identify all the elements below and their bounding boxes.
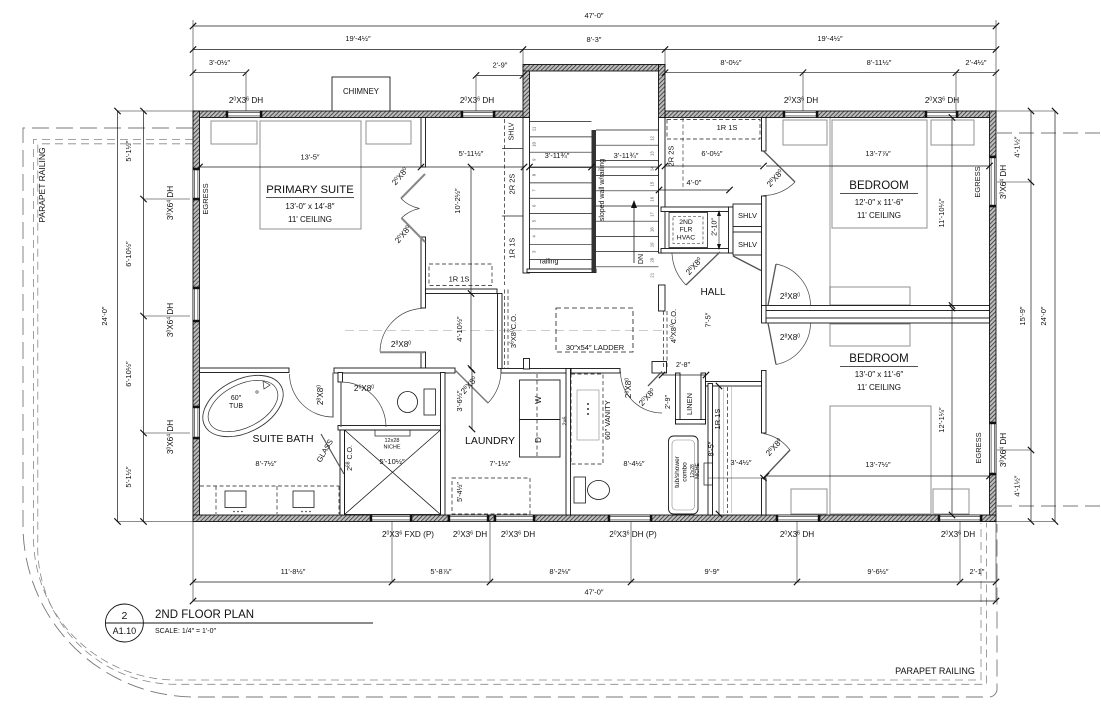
- bedrooms double wall lower east: [766, 318, 990, 323]
- svg-text:28X80: 28X80: [780, 333, 800, 342]
- washer box: [520, 380, 561, 420]
- title circle: [105, 604, 143, 642]
- svg-text:PARAPET RAILING: PARAPET RAILING: [895, 666, 975, 676]
- wc toilet: [424, 389, 436, 415]
- laundry stack dashed: [536, 374, 538, 457]
- exterior bottom wall: [193, 515, 996, 522]
- bottom window 2-0x3-6 DH b: [494, 515, 535, 522]
- stair west wall: [523, 118, 530, 274]
- laundry door: [455, 370, 488, 403]
- svg-text:11' CEILING: 11' CEILING: [857, 211, 901, 220]
- svg-text:FLR: FLR: [680, 227, 693, 234]
- svg-text:28X80: 28X80: [316, 385, 325, 405]
- dim 24-0 left: [117, 111, 119, 522]
- bottom window 2-0x3-6 DH bedroom2-left: [776, 515, 820, 522]
- stair bump right wall: [659, 65, 666, 118]
- svg-text:3'-11¾″: 3'-11¾″: [545, 151, 570, 160]
- svg-text:5'-1½″: 5'-1½″: [124, 466, 133, 488]
- wc door arc: [341, 382, 386, 427]
- svg-text:DN: DN: [638, 254, 645, 264]
- svg-text:5'-11½″: 5'-11½″: [459, 149, 484, 158]
- bedroom2 entry door: [764, 450, 791, 478]
- stair east wall lower: [659, 285, 666, 311]
- suite closet west wall lower: [421, 237, 426, 308]
- svg-text:8'-4½″: 8'-4½″: [623, 459, 645, 468]
- chimney box: [332, 77, 390, 111]
- closet north wall bath: [706, 382, 762, 387]
- svg-text:8'-5″: 8'-5″: [707, 441, 716, 456]
- svg-text:1R 1S: 1R 1S: [713, 409, 722, 430]
- svg-text:LAUNDRY: LAUNDRY: [465, 435, 515, 447]
- svg-text:sloped wall w/railing: sloped wall w/railing: [599, 159, 606, 221]
- stair east wall: [659, 118, 666, 254]
- hvac closet south wall: [661, 249, 733, 254]
- svg-text:30″x54″ LADDER: 30″x54″ LADDER: [566, 343, 625, 352]
- stair treads right flight: [596, 129, 659, 131]
- bedroom1 nightstand left: [783, 120, 827, 145]
- dim 2-9 bump: [476, 74, 523, 76]
- svg-text:13'-7⅞″: 13'-7⅞″: [865, 149, 891, 158]
- bedroom1 top closet dashed: [667, 120, 760, 140]
- svg-text:26X80: 26X80: [624, 378, 633, 398]
- svg-text:SHLV: SHLV: [738, 211, 757, 220]
- parapet dashed line right mid: [997, 505, 1101, 507]
- dim right segments: [1030, 111, 1032, 522]
- svg-text:26X80: 26X80: [354, 384, 374, 393]
- hall centerline dashed: [345, 330, 666, 332]
- svg-text:13′-0″ x 11′-6″: 13′-0″ x 11′-6″: [855, 370, 904, 379]
- primary suite nightstand right: [366, 121, 411, 144]
- tub faucet: [263, 381, 270, 389]
- window 2-0x3-6 DH top-right-2: [925, 111, 958, 118]
- stair wall stub laundry: [524, 359, 530, 370]
- parapet railing outer dashed line: [23, 128, 997, 697]
- svg-text:combo: combo: [682, 462, 689, 482]
- svg-text:1R 1S: 1R 1S: [508, 238, 517, 259]
- svg-text:SHLV: SHLV: [738, 240, 757, 249]
- svg-text:28X80: 28X80: [780, 292, 800, 301]
- stair bump top wall: [523, 65, 665, 72]
- svg-text:8'-3″: 8'-3″: [587, 35, 602, 44]
- wc room north wall: [334, 368, 455, 373]
- wc room south wall: [338, 426, 445, 431]
- linen west wall: [676, 373, 681, 424]
- svg-text:11: 11: [532, 126, 537, 131]
- svg-text:SCALE: 1/4″ = 1′-0″: SCALE: 1/4″ = 1′-0″: [155, 628, 216, 635]
- dim 24-0 right: [1054, 111, 1056, 522]
- svg-text:24'-0″: 24'-0″: [100, 306, 109, 325]
- primary suite nightstand left: [211, 121, 257, 144]
- dim bottom segments: [193, 581, 996, 583]
- bedroom1 hall door: [768, 264, 776, 306]
- svg-text:1R 1S: 1R 1S: [449, 275, 470, 284]
- svg-text:5'-10½″: 5'-10½″: [379, 457, 405, 466]
- svg-text:18: 18: [650, 227, 655, 232]
- svg-text:1R 1S: 1R 1S: [717, 123, 738, 132]
- bedroom1 nightstand right: [931, 120, 974, 145]
- svg-text:2R 2S: 2R 2S: [508, 174, 517, 195]
- closet strip divider shelf line 1: [502, 148, 523, 150]
- parapet railing inner dashed pair: [34, 140, 982, 681]
- dim row3 right: [665, 72, 996, 74]
- dim 12-1 bedroom2 vert: [951, 308, 953, 515]
- stair bump left wall: [523, 65, 530, 118]
- svg-text:HVAC: HVAC: [677, 235, 695, 242]
- shelf closet upper box: [733, 204, 762, 227]
- bedroom1 west wall upper: [762, 118, 767, 152]
- right wall egress window 3-0x6-4 DH lower: [990, 422, 997, 475]
- dashed line right of stairs: [682, 118, 684, 190]
- bottom window 2-0x3-6 DH a: [448, 515, 489, 522]
- svg-text:20X36 DH (P): 20X36 DH (P): [609, 530, 657, 539]
- svg-text:7'-5″: 7'-5″: [704, 312, 713, 327]
- dim 3-11 stair left: [530, 166, 592, 168]
- bath entry door: [648, 372, 662, 387]
- bedroom2 nightstand left: [791, 489, 827, 514]
- svg-text:8'-0½″: 8'-0½″: [720, 58, 742, 67]
- hvac closet north wall: [661, 207, 733, 212]
- svg-text:12′-0″ x 11′-6″: 12′-0″ x 11′-6″: [855, 198, 904, 207]
- svg-text:11'-10¼″: 11'-10¼″: [937, 198, 946, 227]
- svg-text:2ND: 2ND: [679, 219, 693, 226]
- dim 13-7 bedroom1: [766, 165, 990, 167]
- svg-text:BEDROOM: BEDROOM: [849, 353, 908, 365]
- suite closet double doors 2-0x8-0: [401, 174, 425, 199]
- hall stair door: [686, 252, 720, 285]
- svg-text:2'-10″: 2'-10″: [712, 218, 719, 236]
- vanity dashed: [571, 374, 603, 464]
- closet area south wall: [426, 289, 498, 294]
- svg-text:19'-4½″: 19'-4½″: [817, 34, 843, 43]
- svg-text:5'-1½″: 5'-1½″: [124, 140, 133, 162]
- dim 47-0 bottom: [193, 600, 996, 602]
- svg-text:7'-1½″: 7'-1½″: [489, 459, 511, 468]
- shelf closet door leaf: [733, 256, 761, 271]
- svg-text:2x6: 2x6: [563, 417, 569, 426]
- svg-text:8'-7½″: 8'-7½″: [255, 459, 277, 468]
- glass partition: [321, 434, 344, 474]
- bedroom1 entry door: [764, 151, 796, 182]
- bedroom2 west wall upper: [762, 371, 767, 434]
- suite bath counter dashed: [200, 485, 339, 487]
- svg-text:3'-4½″: 3'-4½″: [730, 458, 752, 467]
- svg-text:4'-0″: 4'-0″: [687, 178, 702, 187]
- suite bath north wall: [200, 368, 290, 373]
- svg-text:6'-0½″: 6'-0½″: [701, 149, 723, 158]
- svg-text:20X36 FXD (P): 20X36 FXD (P): [382, 530, 434, 539]
- bath toilet: [574, 477, 586, 503]
- svg-text:4'-1½″: 4'-1½″: [1013, 136, 1022, 158]
- dryer box: [520, 420, 561, 458]
- svg-text:60″: 60″: [231, 395, 242, 402]
- linen east wall: [701, 373, 706, 424]
- wc room west wall stub: [338, 373, 343, 383]
- dim 13-5 suite: [200, 166, 422, 168]
- svg-text:3'-6½″: 3'-6½″: [455, 390, 464, 412]
- svg-text:4'-1½″: 4'-1½″: [1013, 475, 1022, 497]
- svg-text:12'-1¼″: 12'-1¼″: [937, 407, 946, 433]
- suite west wall below door: [421, 352, 426, 371]
- bath niche box: [704, 463, 713, 485]
- bedroom1 ext line: [829, 118, 831, 306]
- svg-text:20: 20: [650, 257, 655, 262]
- suite bath tub: [193, 363, 294, 449]
- svg-text:15'-9″: 15'-9″: [1018, 306, 1027, 325]
- svg-text:16: 16: [650, 196, 655, 201]
- svg-text:19'-4½″: 19'-4½″: [345, 34, 371, 43]
- bottom window 2-0x3-6 FXD (P): [370, 515, 412, 522]
- svg-text:47'-0″: 47'-0″: [584, 11, 603, 20]
- suite bath door: [332, 373, 334, 418]
- svg-text:8'-2⅛″: 8'-2⅛″: [549, 567, 571, 576]
- svg-text:13: 13: [650, 151, 655, 156]
- svg-text:railing: railing: [540, 259, 559, 266]
- svg-text:6'-10½″: 6'-10½″: [124, 241, 133, 267]
- svg-text:13′-0″ x 14′-8″: 13′-0″ x 14′-8″: [285, 202, 334, 211]
- svg-text:12: 12: [650, 136, 655, 141]
- bedroom1 west wall lower: [762, 196, 767, 308]
- svg-text:TUB: TUB: [229, 403, 243, 410]
- window 2-0x3-6 DH top-left: [226, 111, 262, 118]
- svg-text:12x28: 12x28: [385, 438, 400, 444]
- shelf closet lower box: [733, 232, 762, 255]
- svg-text:19: 19: [650, 242, 655, 247]
- svg-text:tub/shower: tub/shower: [674, 455, 681, 488]
- svg-text:5'-4½″: 5'-4½″: [456, 482, 464, 502]
- svg-text:2: 2: [121, 610, 127, 622]
- sink left: [225, 491, 246, 508]
- door ext line: [708, 477, 763, 479]
- svg-text:SHLV: SHLV: [509, 122, 516, 140]
- dim 3-0 top left: [193, 72, 246, 74]
- svg-text:D: D: [534, 437, 543, 443]
- svg-text:10'-2½″: 10'-2½″: [453, 188, 462, 214]
- window 2-0x3-6 DH top-right-1: [783, 111, 818, 118]
- svg-text:W: W: [534, 396, 543, 404]
- svg-text:2ND FLOOR PLAN: 2ND FLOOR PLAN: [155, 609, 254, 621]
- svg-text:13'-5″: 13'-5″: [300, 153, 319, 162]
- svg-text:47'-0″: 47'-0″: [584, 588, 603, 597]
- window 2-0x3-6 DH top-center-left: [461, 111, 495, 118]
- svg-text:8'-11½″: 8'-11½″: [867, 58, 892, 67]
- svg-text:11' CEILING: 11' CEILING: [288, 215, 332, 224]
- laundry east wall: [566, 369, 571, 516]
- bath closet rod dashed: [727, 387, 729, 513]
- exterior top wall right segment: [665, 111, 996, 118]
- bedroom2 nightstand right: [933, 489, 969, 514]
- sink right: [293, 491, 314, 508]
- right wall egress window 3-0x6-4 DH upper: [990, 156, 997, 207]
- parapet dashed line right top: [997, 132, 1101, 134]
- bottom window 2-0x3-6 DH bedroom2-right: [938, 515, 982, 522]
- left wall window 3-0x6-4 DH lower: [193, 406, 200, 439]
- svg-text:13'-7½″: 13'-7½″: [865, 460, 891, 469]
- laundry north wall east seg: [501, 369, 571, 374]
- svg-text:NICHE: NICHE: [695, 463, 701, 479]
- wc room width dim: [471, 370, 473, 429]
- bedroom2 bed: [830, 406, 931, 514]
- vanity sink: [577, 390, 599, 440]
- hvac closet east wall: [729, 207, 734, 253]
- svg-text:EGRESS: EGRESS: [973, 166, 982, 197]
- stair DN arrow: [633, 205, 635, 263]
- svg-text:17: 17: [650, 212, 655, 217]
- svg-text:24'-0″: 24'-0″: [1039, 306, 1048, 325]
- dim 13-7 bedroom2: [766, 475, 990, 477]
- closet strip dashed front: [504, 119, 506, 285]
- title underline: [105, 622, 373, 624]
- stairwell bottom rail wall: [527, 269, 596, 273]
- svg-text:CHIMNEY: CHIMNEY: [343, 87, 380, 96]
- svg-text:11' CEILING: 11' CEILING: [857, 383, 901, 392]
- bottom window 2-0x3-6 DH (P): [608, 515, 652, 522]
- svg-text:11'-8½″: 11'-8½″: [281, 567, 306, 576]
- linen south wall: [676, 420, 706, 425]
- svg-text:2'-1″: 2'-1″: [970, 567, 985, 576]
- dim row2 top: [193, 49, 996, 51]
- svg-text:2'-4½″: 2'-4½″: [965, 58, 987, 67]
- exterior top wall left segment: [193, 111, 523, 118]
- svg-text:PARAPET RAILING: PARAPET RAILING: [37, 147, 47, 222]
- dim 5-11 closet: [421, 166, 524, 168]
- svg-text:3'-11¾″: 3'-11¾″: [614, 151, 639, 160]
- svg-text:LINEN: LINEN: [685, 393, 694, 415]
- svg-text:2'-8″: 2'-8″: [676, 362, 690, 369]
- svg-text:BEDROOM: BEDROOM: [849, 180, 908, 192]
- dim 6-0 hall top: [665, 165, 762, 167]
- svg-text:NICHE: NICHE: [383, 445, 400, 451]
- suite closet 1R1S dashed box: [429, 264, 492, 286]
- bedroom2 west wall lower: [762, 478, 767, 515]
- cased opening 4-0x8-0 dashed: [663, 311, 665, 369]
- dim 47-0 top: [193, 25, 996, 27]
- svg-text:21: 21: [650, 272, 655, 277]
- svg-text:2'-9″: 2'-9″: [665, 395, 672, 409]
- bedroom2 dresser upper: [830, 324, 910, 346]
- svg-text:60″ VANITY: 60″ VANITY: [603, 400, 612, 440]
- suite closet west wall upper: [421, 118, 426, 168]
- exterior left wall: [193, 111, 200, 522]
- left wall window 3-0x6-4 DH middle: [193, 287, 200, 322]
- dim 10-2 closet vert: [470, 167, 472, 294]
- primary suite bed: [260, 121, 361, 229]
- svg-text:PRIMARY SUITE: PRIMARY SUITE: [266, 184, 354, 196]
- bath closet west wall: [708, 384, 713, 516]
- svg-text:5'-8⅞″: 5'-8⅞″: [430, 567, 452, 576]
- svg-text:15: 15: [650, 181, 655, 186]
- bath north wall segment: [571, 369, 620, 374]
- hvac unit box: [669, 213, 708, 248]
- svg-text:3'-0½″: 3'-0½″: [209, 58, 231, 67]
- cased opening 3-6x8-0 dashed: [504, 290, 506, 369]
- svg-text:28X80: 28X80: [391, 340, 411, 349]
- svg-text:2'-9″: 2'-9″: [493, 61, 508, 70]
- hvac width dim 2-10: [718, 213, 720, 247]
- svg-text:A1.10: A1.10: [113, 626, 137, 636]
- dim left segments: [143, 111, 145, 522]
- stair center sloped wall: [592, 130, 597, 272]
- suite vestibule door: [380, 351, 424, 353]
- svg-text:10: 10: [532, 141, 537, 146]
- vestibule east wall: [498, 294, 503, 369]
- bedrooms double wall upper east: [766, 306, 990, 311]
- shower niche: [375, 430, 410, 436]
- svg-text:EGRESS: EGRESS: [974, 432, 983, 463]
- bedroom1 bed: [832, 120, 927, 228]
- bath north wall jog: [652, 362, 667, 374]
- bedroom2 hall door: [768, 323, 776, 365]
- bedrooms double wall left stub: [762, 306, 767, 324]
- svg-text:9'-6½″: 9'-6½″: [867, 567, 889, 576]
- svg-text:9'-9″: 9'-9″: [705, 567, 720, 576]
- shower box with X: [345, 430, 441, 515]
- svg-text:EGRESS: EGRESS: [201, 183, 210, 214]
- svg-text:4'-10½″: 4'-10½″: [455, 316, 464, 342]
- svg-text:HALL: HALL: [700, 287, 725, 298]
- dim 4-10 vestibule: [470, 294, 472, 369]
- dim 4-0 hvac: [659, 189, 730, 191]
- shower west wall: [340, 430, 345, 515]
- dim 3-11 stair right: [596, 166, 659, 168]
- tub shower combo: [669, 436, 699, 514]
- exterior right wall: [990, 111, 997, 522]
- stair treads left flight: [530, 121, 592, 123]
- attic ladder dashed box: [556, 308, 633, 352]
- wc/shower east wall: [441, 373, 446, 516]
- bedroom1 dresser upper: [830, 287, 910, 305]
- svg-text:SUITE BATH: SUITE BATH: [252, 433, 313, 445]
- left wall egress window 3-0x6-4 DH upper: [193, 168, 200, 200]
- closet strip divider shelf line 2: [502, 215, 523, 217]
- svg-text:6'-10½″: 6'-10½″: [124, 361, 133, 387]
- dim 11-10 bedroom1 vert: [951, 118, 953, 306]
- laundry cabinets dashed: [452, 478, 530, 514]
- svg-text:268 C.O.: 268 C.O.: [346, 445, 354, 471]
